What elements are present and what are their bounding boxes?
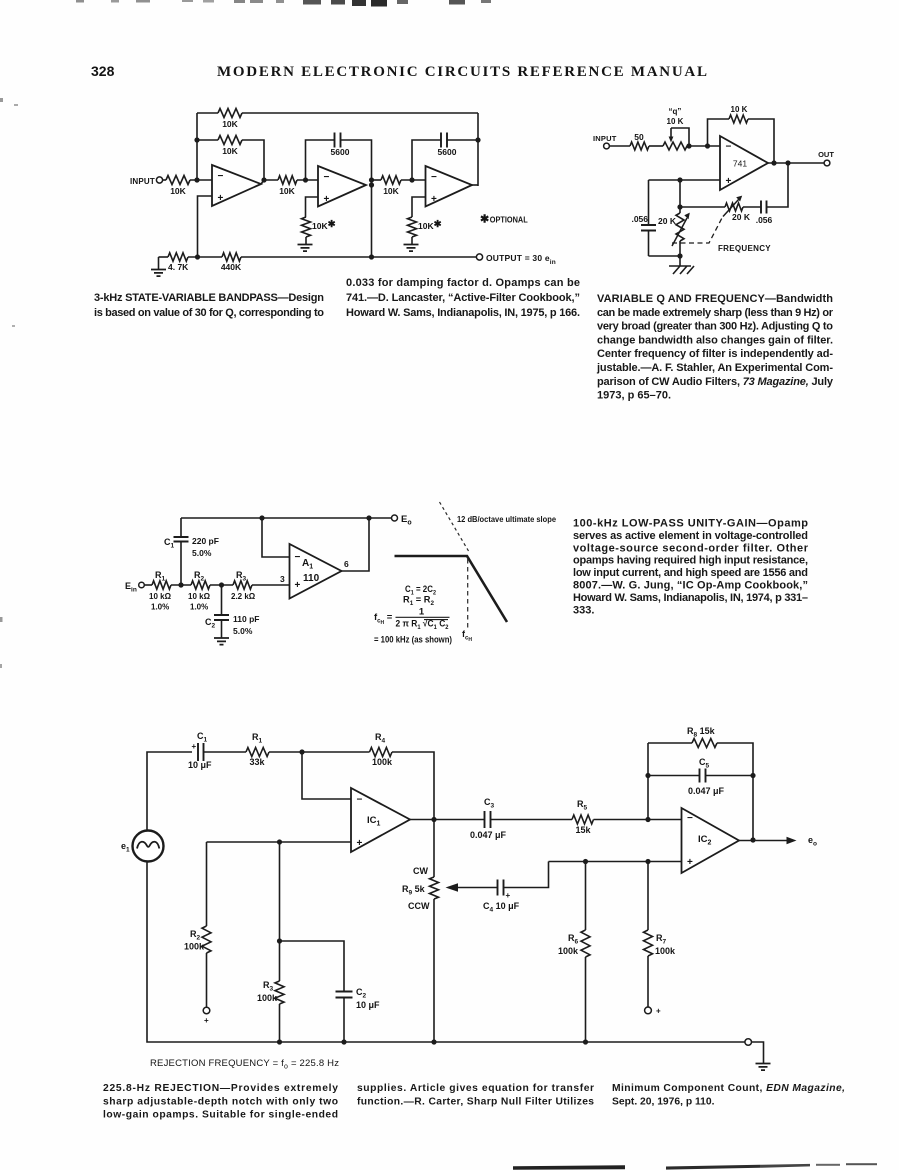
svg-text:can be made extremely sharp (l: can be made extremely sharp (less than 9… xyxy=(597,307,834,319)
resistor 10K between U2 and U3 xyxy=(372,179,382,181)
svg-text:serves as active element in vo: serves as active element in voltage-cont… xyxy=(573,530,808,542)
resistor R3 100k xyxy=(275,981,284,1004)
svg-text:−: − xyxy=(726,142,732,153)
svg-text:333.: 333. xyxy=(573,604,594,616)
svg-text:100k: 100k xyxy=(655,946,676,956)
wire top rail with resistor 10K xyxy=(197,112,218,114)
op-amp U3 xyxy=(426,166,473,207)
junction U2 output apex xyxy=(369,182,374,187)
svg-text:+: + xyxy=(656,1007,661,1016)
svg-text:+: + xyxy=(431,194,437,205)
svg-text:−: − xyxy=(324,172,330,183)
capacitor C3 0.047uF xyxy=(485,811,491,828)
svg-text:50: 50 xyxy=(634,132,644,142)
wire R3 to bottom rail xyxy=(279,1004,281,1042)
wire C1 to R1 xyxy=(204,751,247,753)
resistor 50 xyxy=(630,142,649,150)
junction Q pot right xyxy=(686,143,691,148)
resistor R2 100k xyxy=(202,926,211,953)
wire R2 branch down xyxy=(206,842,208,926)
wire 4.7K to 440K xyxy=(188,256,222,258)
junction R3 bottom xyxy=(277,1039,282,1044)
potentiometer 20 K left xyxy=(676,213,684,241)
potentiometer R9 5k xyxy=(433,820,435,878)
wire input to 50 xyxy=(610,145,631,147)
svg-text:20 K: 20 K xyxy=(658,216,677,226)
svg-text:C1: C1 xyxy=(164,537,175,550)
svg-text:✱OPTIONAL: ✱OPTIONAL xyxy=(480,214,528,226)
resistor 10K* of U2 xyxy=(302,217,311,237)
wire C3 to R5 xyxy=(491,819,573,821)
svg-text:5600: 5600 xyxy=(438,147,457,157)
wire left cap branch down xyxy=(648,180,650,225)
wire U2 plus to 10K* resistor xyxy=(306,197,319,217)
junction U3 input node xyxy=(409,177,414,182)
resistor R4 100k xyxy=(370,748,393,757)
wire A1 output up to rail xyxy=(342,518,370,571)
ground U2 bias xyxy=(298,245,313,252)
svg-text:3: 3 xyxy=(280,574,285,584)
wire vertical input node to feedback rows xyxy=(196,113,198,180)
svg-text:741.—D. Lancaster, “Active-Fil: 741.—D. Lancaster, “Active-Filter Cookbo… xyxy=(346,292,580,304)
junction R7 top xyxy=(645,859,650,864)
junction R6 top xyxy=(583,859,588,864)
wire R4 to output vertical xyxy=(392,752,434,820)
svg-text:110 pF: 110 pF xyxy=(233,614,259,624)
junction C2 bottom xyxy=(341,1039,346,1044)
svg-text:10 K: 10 K xyxy=(731,105,748,114)
junction U2 output at bottom rail xyxy=(369,254,374,259)
wire IC2 plus row xyxy=(549,861,682,863)
svg-text:function.—R. Carter, Sharp Nul: function.—R. Carter, Sharp Null Filter U… xyxy=(357,1096,594,1107)
output terminal OUT xyxy=(824,160,830,166)
wire IC1 output to C3 xyxy=(410,819,484,821)
svg-text:+: + xyxy=(295,580,301,591)
svg-text:Eo: Eo xyxy=(401,514,412,527)
op-amp IC1 xyxy=(351,788,410,852)
svg-text:100-kHz LOW-PASS UNITY-GAIN—Op: 100-kHz LOW-PASS UNITY-GAIN—Opamp xyxy=(573,518,808,530)
ground terminal bottom right xyxy=(745,1039,752,1046)
wire feedback branch U3 up xyxy=(412,140,441,180)
resistor 10K input xyxy=(166,176,190,185)
svg-text:fcH: fcH xyxy=(462,629,472,643)
svg-text:.056: .056 xyxy=(756,215,773,225)
svg-text:440K: 440K xyxy=(221,262,242,272)
junction C5 left xyxy=(645,773,650,778)
svg-text:R5: R5 xyxy=(577,799,588,812)
svg-text:10K✱: 10K✱ xyxy=(418,219,443,231)
svg-text:5.0%: 5.0% xyxy=(233,626,253,636)
potentiometer Q 10K xyxy=(663,142,687,150)
wire horizontal to output branch xyxy=(680,206,725,208)
wire 50 to Q pot xyxy=(649,145,663,147)
svg-text:2 π R1 √C1 C2: 2 π R1 √C1 C2 xyxy=(396,619,449,632)
wire cap to top-rail vertical xyxy=(447,139,478,141)
svg-text:10K: 10K xyxy=(222,146,238,156)
junction feedback at output xyxy=(771,160,776,165)
op-amp A1 110 xyxy=(290,544,342,599)
svg-text:15k: 15k xyxy=(575,825,591,835)
resistor 4.7K xyxy=(159,256,169,258)
wire C4 to wiper arrow xyxy=(448,887,498,889)
svg-text:Howard W. Sams, Indianapolis,: Howard W. Sams, Indianapolis, IN, 1974, … xyxy=(573,592,808,604)
svg-text:1.0%: 1.0% xyxy=(190,603,208,612)
svg-text:REJECTION FREQUENCY = fo = 225: REJECTION FREQUENCY = fo = 225.8 Hz xyxy=(150,1058,339,1071)
potentiometer 20 K right xyxy=(725,203,743,211)
wire link to C2 xyxy=(280,941,345,991)
wire to ground of U3 bias xyxy=(411,237,413,244)
junction R3 C2 link xyxy=(277,938,282,943)
junction minus feedback xyxy=(259,515,264,520)
junction bottom rail plus xyxy=(195,254,200,259)
junction IC2 output xyxy=(750,837,755,842)
wire U3 output to vertical xyxy=(472,184,478,186)
svg-text:5600: 5600 xyxy=(331,147,350,157)
svg-text:100k: 100k xyxy=(257,993,278,1003)
svg-text:R2: R2 xyxy=(190,929,201,942)
junction U2 output row xyxy=(369,177,374,182)
capacitor 5600 of U3 xyxy=(441,133,447,148)
wire R3 branch down xyxy=(279,842,281,981)
junction U1 output xyxy=(261,177,266,182)
svg-text:10K: 10K xyxy=(170,186,186,196)
svg-text:R7: R7 xyxy=(656,933,667,946)
wire to ground of U2 bias xyxy=(305,237,307,244)
svg-text:FREQUENCY: FREQUENCY xyxy=(718,244,771,253)
svg-text:R1 = R2: R1 = R2 xyxy=(403,595,434,608)
wire R to op-amp U1 xyxy=(190,179,212,181)
ground bottom left xyxy=(158,257,160,269)
svg-text:R6: R6 xyxy=(568,933,579,946)
wire bottom ground link xyxy=(649,255,681,257)
wire R3 to op-amp A1 pin 3 xyxy=(252,584,290,586)
svg-text:“q”: “q” xyxy=(669,107,682,116)
resistor R3 2.2k xyxy=(233,581,252,589)
svg-text:justable.—A. F. Stahler, An Ex: justable.—A. F. Stahler, An Experimental… xyxy=(596,362,833,374)
svg-text:10K: 10K xyxy=(383,186,399,196)
svg-text:R9 5k: R9 5k xyxy=(402,884,426,897)
svg-text:10 kΩ: 10 kΩ xyxy=(188,592,211,601)
junction pot top with horizontal xyxy=(677,204,682,209)
wire R5 to IC2 minus xyxy=(594,819,682,821)
ground symbol bottom right xyxy=(756,1064,771,1071)
wire pot bottom to ground node xyxy=(679,241,681,256)
svg-text:change bandwidth also changes: change bandwidth also changes gain of fi… xyxy=(597,334,833,346)
wire IC2 output arrow eo xyxy=(739,840,788,842)
junction plus row pot branch xyxy=(677,177,682,182)
dashed gang line xyxy=(672,216,723,243)
wire R1 to R4 xyxy=(269,751,370,753)
wire pot branch down xyxy=(679,180,681,213)
svg-text:33k: 33k xyxy=(249,757,265,767)
capacitor C1 220pF xyxy=(180,518,182,537)
svg-text:100k: 100k xyxy=(558,946,579,956)
frequency response flat line xyxy=(395,556,508,622)
terminal Eo xyxy=(392,515,398,521)
svg-text:Howard W. Sams, Indianapolis,: Howard W. Sams, Indianapolis, IN, 1975, … xyxy=(346,307,580,319)
wire minus feed down to IC1 xyxy=(302,752,351,799)
wire feedback branch U2 up xyxy=(306,140,335,180)
svg-text:−: − xyxy=(218,171,224,182)
input terminal (filter) xyxy=(604,143,610,149)
svg-text:10K✱: 10K✱ xyxy=(312,219,337,231)
svg-text:0.047 μF: 0.047 μF xyxy=(470,830,507,840)
capacitor .056 right xyxy=(761,201,767,214)
wire cap to U2 output vertical xyxy=(341,140,372,257)
svg-text:R4: R4 xyxy=(375,732,386,745)
svg-text:= 100 kHz (as shown): = 100 kHz (as shown) xyxy=(374,635,452,646)
wire cap to output vertical xyxy=(767,163,789,207)
svg-text:MODERN ELECTRONIC CIRCUITS REF: MODERN ELECTRONIC CIRCUITS REFERENCE MAN… xyxy=(217,64,707,80)
ground (filter) xyxy=(679,256,681,266)
svg-text:6: 6 xyxy=(344,559,349,569)
junction second row xyxy=(194,137,199,142)
capacitor C2 10uF xyxy=(336,992,353,998)
svg-text:8007.—W. G. Jung, “IC Op-Amp C: 8007.—W. G. Jung, “IC Op-Amp Cookbook,” xyxy=(573,580,808,592)
resistor R1 33k xyxy=(246,748,269,757)
svg-text:10K: 10K xyxy=(222,119,238,129)
svg-text:0.047 μF: 0.047 μF xyxy=(688,786,725,796)
wire minus input from top rail xyxy=(262,518,290,557)
svg-text:3-kHz STATE-VARIABLE BANDPASS—: 3-kHz STATE-VARIABLE BANDPASS—Design xyxy=(94,292,324,304)
wire R2 to R3 xyxy=(210,584,233,586)
wire U1 plus input to bottom rail xyxy=(198,196,213,257)
resistor R2 10k xyxy=(191,581,210,589)
resistor R1 10k xyxy=(152,581,171,589)
svg-text:OUT: OUT xyxy=(818,150,834,159)
source e1 sine generator xyxy=(133,831,164,862)
svg-text:4. 7K: 4. 7K xyxy=(168,262,189,272)
svg-text:2.2 kΩ: 2.2 kΩ xyxy=(231,592,256,601)
resistor 10K* of U3 xyxy=(408,217,417,237)
junction feedback node IC2 xyxy=(645,817,650,822)
dashed corner frequency line xyxy=(467,559,469,628)
wire plus row corner down to C4 wiper row xyxy=(504,862,549,888)
wire pot to op-amp 741 xyxy=(689,145,720,147)
junction ground node xyxy=(677,253,682,258)
resistor 10K feedback row 2 xyxy=(197,139,218,141)
wire Ein to R1 xyxy=(144,584,152,586)
capacitor C2 110pF xyxy=(221,585,223,615)
svg-text:low input current, and high sp: low input current, and high speed are 15… xyxy=(573,567,808,579)
ground C2 xyxy=(214,638,229,645)
terminal Ein xyxy=(139,582,145,588)
junction R9 bottom rail xyxy=(431,1039,436,1044)
svg-text:10K: 10K xyxy=(279,186,295,196)
svg-text:e1: e1 xyxy=(121,841,130,854)
junction feedback takeoff xyxy=(705,143,710,148)
op-amp U1 xyxy=(212,165,261,206)
capacitor 5600 of U2 xyxy=(335,133,341,148)
svg-text:C2: C2 xyxy=(356,987,367,1000)
junction R6 bottom xyxy=(583,1039,588,1044)
resistor R6 100k xyxy=(585,862,587,931)
svg-text:INPUT: INPUT xyxy=(130,177,155,186)
svg-text:Center frequency of filter is: Center frequency of filter is independen… xyxy=(597,348,833,360)
junction C1 node xyxy=(178,582,183,587)
wire R1 to R2 xyxy=(171,584,191,586)
wire 741 output xyxy=(768,162,824,164)
wire pot to cap .056 right xyxy=(743,206,761,208)
svg-text:C1: C1 xyxy=(197,731,208,744)
svg-text:C3: C3 xyxy=(484,797,495,810)
wire input to R xyxy=(163,179,166,181)
wire top rail right vertical to U3 output xyxy=(477,113,479,186)
wire R to U2 xyxy=(297,179,318,181)
junction output branch xyxy=(785,160,790,165)
junction plus row R3 branch xyxy=(277,839,282,844)
capacitor C5 row xyxy=(648,775,700,777)
junction input node xyxy=(194,177,199,182)
svg-text:225.8-Hz REJECTION—Provides ex: 225.8-Hz REJECTION—Provides extremely xyxy=(103,1083,338,1094)
svg-text:supplies. Article gives equati: supplies. Article gives equation for tra… xyxy=(357,1083,594,1094)
svg-text:C2: C2 xyxy=(205,617,216,630)
junction C5 right xyxy=(750,773,755,778)
svg-text:.056: .056 xyxy=(631,214,648,224)
wire IC1 plus row xyxy=(207,841,352,843)
svg-text:+: + xyxy=(687,857,693,868)
svg-text:CW: CW xyxy=(413,866,428,876)
junction U2 input node xyxy=(303,177,308,182)
svg-text:VARIABLE Q AND FREQUENCY—Bandw: VARIABLE Q AND FREQUENCY—Bandwidth xyxy=(597,293,833,305)
svg-text:parison of CW Audio Filters, 7: parison of CW Audio Filters, 73 Magazine… xyxy=(597,376,834,388)
svg-text:opamps having required high in: opamps having required high input resist… xyxy=(573,555,808,567)
terminal R7 + xyxy=(645,1007,652,1014)
svg-text:1.0%: 1.0% xyxy=(151,603,169,612)
dashed asymptote xyxy=(440,502,469,551)
svg-text:R3: R3 xyxy=(263,980,274,993)
ground U3 bias xyxy=(404,245,419,252)
resistor R8 15k feedback row xyxy=(648,742,692,744)
op-amp 741 xyxy=(720,136,768,190)
resistor 10K between U1 and U2 xyxy=(278,176,297,184)
capacitor C4 10uF polarized xyxy=(498,880,504,896)
svg-text:10 K: 10 K xyxy=(667,117,684,126)
junction C2 node xyxy=(219,582,224,587)
wire U3 plus to 10K* resistor xyxy=(412,197,426,217)
svg-text:+: + xyxy=(218,193,224,204)
junction output vertical xyxy=(366,515,371,520)
terminal R2 + xyxy=(203,1007,210,1014)
op-amp IC2 xyxy=(682,808,740,873)
svg-text:−: − xyxy=(687,813,693,824)
svg-text:OUTPUT = 30 ein: OUTPUT = 30 ein xyxy=(486,253,556,266)
wire C2 to bottom rail xyxy=(343,998,345,1043)
svg-text:741: 741 xyxy=(733,159,747,169)
svg-text:C4 10 μF: C4 10 μF xyxy=(483,901,520,914)
svg-text:−: − xyxy=(357,795,363,806)
svg-text:20 K: 20 K xyxy=(732,212,751,222)
svg-text:voltage-source second-order fi: voltage-source second-order filter. Othe… xyxy=(573,542,809,554)
svg-text:5.0%: 5.0% xyxy=(192,548,212,558)
svg-text:+: + xyxy=(357,838,363,849)
resistor R7 100k xyxy=(647,862,649,931)
svg-text:+: + xyxy=(506,891,511,900)
junction IC1 output xyxy=(431,817,436,822)
svg-text:+: + xyxy=(192,742,197,751)
svg-text:0.033 for damping factor d. Op: 0.033 for damping factor d. Opamps can b… xyxy=(346,277,580,289)
svg-text:1: 1 xyxy=(419,607,425,618)
svg-text:R8 15k: R8 15k xyxy=(687,726,716,739)
svg-text:Sept. 20, 1976, p 110.: Sept. 20, 1976, p 110. xyxy=(612,1096,715,1107)
svg-text:220 pF: 220 pF xyxy=(192,536,219,546)
svg-text:R1: R1 xyxy=(252,732,263,745)
svg-text:10 μF: 10 μF xyxy=(188,760,212,770)
svg-text:+: + xyxy=(726,176,732,187)
wire feedback vertical IC2 xyxy=(647,743,649,820)
svg-text:+: + xyxy=(204,1016,209,1025)
svg-text:110: 110 xyxy=(303,573,320,584)
wire feedback up and over with resistor 10 K xyxy=(708,119,730,146)
svg-text:CCW: CCW xyxy=(408,901,430,911)
svg-text:+: + xyxy=(324,194,330,205)
svg-text:low-gain opamps. Suitable for: low-gain opamps. Suitable for single-end… xyxy=(103,1110,338,1121)
wire source bottom to rail xyxy=(147,862,745,1043)
resistor R5 15k xyxy=(572,815,594,824)
wire top rail to Eo xyxy=(181,517,391,519)
svg-text:100k: 100k xyxy=(184,942,205,952)
svg-text:10 μF: 10 μF xyxy=(356,1000,380,1010)
capacitor C1 10uF xyxy=(198,743,204,761)
svg-text:C5: C5 xyxy=(699,757,710,770)
svg-text:100k: 100k xyxy=(372,757,393,767)
svg-text:is based on value of 30 for Q,: is based on value of 30 for Q, correspon… xyxy=(94,307,324,319)
junction top vertical with 5600 row xyxy=(475,137,480,142)
wire R2 to terminal xyxy=(206,953,208,1007)
svg-text:10 kΩ: 10 kΩ xyxy=(149,592,172,601)
svg-text:very broad (greater than 300 H: very broad (greater than 300 Hz). Adjust… xyxy=(597,321,833,333)
svg-text:328: 328 xyxy=(91,63,115,79)
svg-text:INPUT: INPUT xyxy=(593,134,617,143)
capacitor .056 left xyxy=(641,225,656,231)
svg-text:Ein: Ein xyxy=(125,581,137,594)
resistor 440K xyxy=(222,253,241,261)
wire plus input row xyxy=(649,179,721,181)
svg-text:12 dB/octave ultimate slope: 12 dB/octave ultimate slope xyxy=(457,514,556,524)
svg-text:eo: eo xyxy=(808,835,817,848)
svg-text:1973, p 65–70.: 1973, p 65–70. xyxy=(597,390,671,402)
svg-text:fcH =: fcH = xyxy=(374,612,393,626)
junction R1-R4 minus feed xyxy=(299,749,304,754)
input terminal xyxy=(156,177,162,183)
output terminal xyxy=(476,254,482,260)
op-amp U2 xyxy=(318,166,366,207)
wire bottom rail to output xyxy=(241,256,476,258)
svg-text:−: − xyxy=(431,172,437,183)
svg-text:sharp adjustable-depth notch w: sharp adjustable-depth notch with only t… xyxy=(103,1096,338,1107)
svg-text:Minimum Component Count, EDN M: Minimum Component Count, EDN Magazine, xyxy=(612,1083,845,1094)
wire source top to rail xyxy=(147,752,192,831)
svg-text:−: − xyxy=(295,552,301,563)
wire R to U3 xyxy=(401,179,426,181)
wire U1 output to R xyxy=(261,180,278,184)
